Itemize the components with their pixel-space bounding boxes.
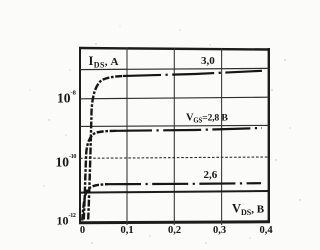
vertical gridline x=0.1 [126,48,128,225]
vertical gridline x=0.3 [221,48,223,225]
horizontal gridline 1e-8 [80,97,269,99]
curve Vgs=2.6 steep rise [82,184,108,220]
plot frame left border (y axis) [79,47,81,223]
curve Vgs=2.6 flat part (dash-dot) [108,183,261,184]
horizontal gridline 1e-10 [80,157,269,158]
x tick label 0,4 [259,225,273,236]
axis label V_DS, B (bottom-right cell) [232,202,265,217]
svg-text:VGS=2,8 В: VGS=2,8 В [186,113,228,125]
svg-text:0,4: 0,4 [259,225,273,236]
svg-text:2,6: 2,6 [204,169,218,181]
x tick label 0,3 [213,225,226,236]
y tick label 1e-8 [57,89,77,105]
y tick label 1e-10 [56,154,77,170]
svg-text:0: 0 [80,225,85,236]
curve Vgs=2.8 steep rise [84,131,116,220]
curve label 2,6 [204,169,218,181]
axis label I_DS, A (top-left cell) [89,54,119,70]
plot frame bottom border (x axis) [79,222,270,223]
curve Vgs=2.8 flat part (dash-dot) [116,128,262,131]
horizontal gridline 1e-9 [80,125,269,126]
horizontal gridline 1e-11 (thick) [80,191,269,193]
x tick label 0,2 [168,225,181,236]
x tick label 0,1 [120,225,133,236]
curve label 3,0 [201,55,215,67]
svg-text:3,0: 3,0 [201,55,215,67]
curve label Vgs=2,8 V [186,113,228,125]
vertical gridline x=0.2 [173,48,175,225]
curve Vgs=3.0 flat part (dash-dot) [123,71,262,76]
plot frame right border [268,48,270,223]
x tick label 0 [80,225,85,236]
y tick label 1e-12 [57,213,76,228]
svg-text:0,1: 0,1 [120,225,133,236]
svg-text:0,2: 0,2 [168,225,181,236]
svg-text:0,3: 0,3 [213,225,226,236]
horizontal gridline 1e-7 [80,68,269,69]
plot frame top border [79,48,270,50]
scan speckles [30,26,301,244]
curve Vgs=3.0 steep rise [88,76,123,220]
